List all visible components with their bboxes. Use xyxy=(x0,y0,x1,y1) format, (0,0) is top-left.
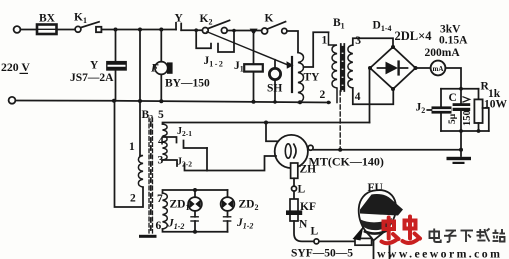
start switch K xyxy=(262,28,268,34)
wire: K2 to K xyxy=(227,30,261,32)
svg-text:5: 5 xyxy=(158,109,164,121)
node: lamp ZD1 taps xyxy=(193,188,197,192)
svg-text:JS7—2A: JS7—2A xyxy=(70,72,114,84)
fuse BX xyxy=(37,25,57,35)
wire: terminal to fuse xyxy=(21,29,37,31)
svg-text:mA: mA xyxy=(433,65,444,73)
watermark char zi xyxy=(444,231,457,242)
feedthrough capacitor KF xyxy=(293,191,295,199)
transformer B2 core (dashed) xyxy=(148,118,150,233)
node: junction F motor return xyxy=(159,99,163,103)
wire: fuse to K1 xyxy=(57,29,75,31)
svg-text:4: 4 xyxy=(158,136,164,148)
node: junction B1 pin2 xyxy=(327,101,331,105)
wire: bottom rail (neutral) xyxy=(16,101,330,103)
terminal L (220V live) xyxy=(14,26,21,33)
transformer B1 core laminations xyxy=(341,47,343,89)
node: J1 tap (triangle marker) xyxy=(250,29,258,35)
relay coil J1 xyxy=(253,35,255,64)
svg-text:MT(CK—140): MT(CK—140) xyxy=(309,155,384,169)
svg-text:K: K xyxy=(265,13,274,25)
wire: meter to HV node xyxy=(445,68,461,89)
transformer B1 core ground link (dashed) xyxy=(339,91,341,150)
watermark bug glyph 2 xyxy=(403,217,421,244)
terminal L (filament) xyxy=(292,186,297,191)
relay coil Y (timer JS7-2A) xyxy=(115,30,117,62)
svg-text:KF: KF xyxy=(300,201,316,213)
node: junction TY return xyxy=(298,100,302,104)
svg-text:10W: 10W xyxy=(484,99,508,111)
svg-text:1: 1 xyxy=(322,35,328,47)
relay coil J2 branch xyxy=(440,89,442,131)
contact J1-2 (under ZD2) xyxy=(227,211,229,217)
transformer B2 primary feed xyxy=(139,30,141,156)
contact J1-2 (under ZD1) xyxy=(194,211,196,217)
svg-text:TY: TY xyxy=(304,72,321,84)
node: junction Y coil tap xyxy=(114,28,118,32)
svg-text:2: 2 xyxy=(320,89,326,101)
wire: filament rail (B2 tap5 to bridge AC2) xyxy=(163,123,370,125)
choke ZH xyxy=(291,163,298,178)
TY wiper bar xyxy=(291,57,293,92)
wire: filament lower feed to MT xyxy=(206,148,208,171)
diode symbol inside bridge xyxy=(378,67,386,69)
horn radiator FU: outline xyxy=(359,190,396,240)
node: junction F motor tap xyxy=(159,28,163,32)
svg-text:220 V: 220 V xyxy=(1,60,30,74)
indicator lamp ZD2 xyxy=(227,190,229,197)
svg-text:BX: BX xyxy=(39,13,56,25)
wire: B1 pin3 to bridge top xyxy=(353,38,393,47)
ground (HV return / chassis) xyxy=(447,157,472,160)
watermark char xia xyxy=(461,231,474,243)
node: junction SH return xyxy=(273,100,277,104)
svg-text:2DL×4: 2DL×4 xyxy=(395,29,433,43)
wire: bridge to meter xyxy=(416,67,431,69)
node: junction B2 primary return xyxy=(112,99,116,103)
watermark char zhan xyxy=(493,229,506,242)
svg-text:SYF—50—5: SYF—50—5 xyxy=(291,248,353,259)
horn radiator FU: inner shade band xyxy=(361,218,393,230)
magnetron MT (CK-140) xyxy=(266,123,278,142)
wire: top rail Y contact to K2 xyxy=(181,29,202,31)
waveguide coupler SYF-50-5 xyxy=(355,238,372,245)
wire: KF to plug L xyxy=(294,221,314,241)
transformer B2 lower secondary winding (7-6) xyxy=(163,193,168,229)
node: junction MT filament upper tap xyxy=(264,121,268,125)
svg-text:5μ: 5μ xyxy=(448,113,458,124)
horn radiator FU: feed wedge xyxy=(353,226,364,241)
node: junction B1 core ground xyxy=(338,148,342,152)
capacitor C (5u/150V) on main branch xyxy=(460,89,462,103)
wire: TY tap to B1 primary xyxy=(304,32,329,67)
svg-text:L: L xyxy=(298,184,306,196)
svg-text:150: 150 xyxy=(462,110,473,126)
node: junction ground stem xyxy=(459,148,463,152)
svg-text:www.eeworm.com: www.eeworm.com xyxy=(377,247,502,259)
svg-text:200mA: 200mA xyxy=(425,47,461,59)
timer contact Y (break in rail) xyxy=(175,23,177,30)
transformer B2 core laminations xyxy=(150,122,152,230)
svg-text:Y: Y xyxy=(175,13,184,25)
wire: bridge AC2 drop xyxy=(369,69,371,123)
svg-text:0.15A: 0.15A xyxy=(439,35,468,47)
bridge rectifier D1-4 (2DL x 4) xyxy=(370,47,416,89)
watermark bug glyph 1 xyxy=(382,218,399,244)
svg-text:N: N xyxy=(299,219,308,231)
contact J2-1 xyxy=(163,137,177,143)
horn radiator FU: dark mouth band xyxy=(360,194,403,216)
transformer B2 primary winding xyxy=(138,156,143,188)
node: junction J1 return xyxy=(252,100,256,104)
node: junction B2 feed crossing xyxy=(138,99,142,103)
svg-text:7: 7 xyxy=(157,193,163,205)
wire: B2 primary return xyxy=(115,101,144,207)
wire: MT anode to ground rail xyxy=(313,149,461,151)
svg-text:FU: FU xyxy=(368,182,384,194)
pushbutton SH xyxy=(274,60,276,69)
HV filter block: top wire xyxy=(441,88,479,90)
svg-text:F: F xyxy=(150,63,159,75)
wire: plug to waveguide xyxy=(319,240,355,242)
node: junction bypass left xyxy=(194,28,198,32)
terminal L (plug) xyxy=(314,239,319,244)
wire: B1 pin4 to bridge bottom xyxy=(353,88,394,104)
switch K1 xyxy=(75,26,81,32)
transformer B1 core xyxy=(340,44,342,91)
watermark char zai xyxy=(477,229,490,242)
indicator lamp ZD1 xyxy=(194,190,196,197)
svg-text:C: C xyxy=(449,92,457,104)
HV filter block: bottom wire xyxy=(441,130,489,132)
horn radiator FU: neck xyxy=(374,241,390,259)
resistor R (1k 10W) xyxy=(478,89,480,100)
svg-text:L: L xyxy=(311,226,319,238)
wire: lamp rail bottom (tap 6) xyxy=(163,229,228,232)
autotransformer TY coil xyxy=(298,53,304,103)
watermark char dian xyxy=(430,229,441,243)
transformer B1 primary winding (1-2) xyxy=(329,32,338,102)
svg-text:Y: Y xyxy=(90,60,99,72)
svg-text:2: 2 xyxy=(130,193,136,205)
horn radiator FU: lower thin band xyxy=(365,231,387,234)
wire: block to ground xyxy=(460,131,462,156)
terminal N (220V neutral) xyxy=(9,97,16,104)
svg-text:ZH: ZH xyxy=(300,164,317,176)
ground (B2 core/chassis) xyxy=(139,235,157,238)
contact J1-2 (bypass around K2) xyxy=(196,30,211,48)
wiper arm (from K2 to TY) xyxy=(207,32,288,65)
svg-text:BY—150: BY—150 xyxy=(165,78,210,90)
meter mA (200mA) xyxy=(431,61,446,76)
svg-text:4: 4 xyxy=(355,91,361,103)
svg-text:SH: SH xyxy=(267,83,282,95)
door switch K2 xyxy=(202,28,208,34)
svg-text:3: 3 xyxy=(355,35,361,47)
svg-text:1: 1 xyxy=(129,141,135,153)
transformer B1 secondary winding (3-4) xyxy=(348,45,353,88)
wire: top rail K1 to Y contact xyxy=(102,29,176,31)
node: junction bypass right xyxy=(232,29,236,33)
node: junction B2 feed tap xyxy=(138,28,142,32)
transformer B2 upper secondary winding (5-4-3) xyxy=(163,124,168,160)
svg-text:3: 3 xyxy=(158,155,164,167)
contact J2-2 xyxy=(163,160,178,166)
wire: lamp rail top (tap 7) xyxy=(163,190,228,193)
fan motor F (BY-150) xyxy=(160,30,162,62)
svg-text:6: 6 xyxy=(156,220,162,232)
wire: K to TY top xyxy=(287,31,298,53)
